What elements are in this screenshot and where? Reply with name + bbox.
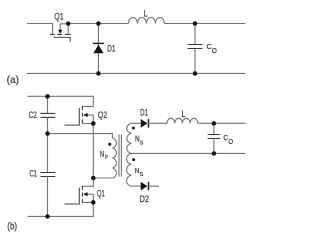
transistor Q2 source and body link [82,115,93,124]
svg-text:(a): (a) [7,75,20,86]
svg-text:D1: D1 [107,43,115,54]
transformer secondary bottom phase dot [132,158,135,161]
wire: D2 cathode stub [149,185,160,187]
transistor Q2 channel dashes [81,106,83,123]
diode D2 triangle [141,182,148,191]
node: CO top junction (circuit a) [193,21,198,26]
node: output junction L-CO (circuit b) [212,121,217,126]
transistor Q1 (circuit a) body link and right stub [60,24,68,34]
transistor Q1 (circuit b) body arrowhead triangle [83,192,87,196]
wire: circuit (a) top rail from Q1 to inductor [68,23,128,25]
wire: circuit (a) top rail left segment into Q1 drain stub [27,24,53,34]
wire: secondary top lead to D1 [131,122,140,124]
svg-text:L: L [144,8,148,19]
node: C1-C2 midpoint [45,131,50,136]
wire: circuit (a) bottom rail [27,72,246,74]
transformer primary winding NP [112,138,116,178]
wire: secondary bottom lead to D2 [131,185,140,187]
wire: capacitor C1 branch bottom [47,177,49,217]
capacitor C2 plates [40,113,55,117]
wire: Q2 source down to Q1 drain [92,124,94,179]
wire: diode D1 (circuit a) branch vertical [97,24,99,74]
wire: D1 cathode to inductor [149,122,168,124]
wire: C1-C2 midpoint to transformer primary top [48,134,113,138]
transistor Q1 (circuit a) channel dashes [50,33,71,35]
node: CO bottom junction (circuit b) [212,151,217,156]
transistor Q1 (circuit b) source and body link [82,194,93,202]
transistor Q1 (circuit a) body arrow shaft [59,24,61,30]
transistor Q2 body arrowhead triangle [83,113,87,117]
svg-text:O: O [212,46,217,55]
transistor Q1 (circuit b) channel dashes [81,186,83,203]
svg-text:C2: C2 [29,110,37,121]
transformer secondary winding NS bottom [127,153,132,186]
transistor Q2 body arrow shaft [87,114,93,116]
node: D1 top junction (circuit a) [96,21,101,26]
svg-text:C1: C1 [30,169,37,180]
inductor L (circuit a) [128,18,164,24]
node: C1 bottom junction [45,214,50,219]
svg-text:Q2: Q2 [98,110,107,121]
diode D1 (circuit b) triangle [141,119,148,128]
diode D1 (circuit a) triangle [93,45,103,54]
node: C2 top junction [45,94,50,99]
svg-text:D2: D2 [140,194,150,205]
node: Q1-Q2 midpoint (Q1 drain) [91,176,96,181]
wire: circuit (a) top rail from inductor to right edge [164,23,245,25]
node: D1 bottom junction (circuit a) [96,71,101,76]
svg-text:Q1: Q1 [97,188,105,199]
transistor Q1 (circuit b) drain corner [82,178,93,186]
diode D1 (circuit b) cathode bar [148,119,150,128]
transformer primary phase dot [108,143,111,146]
transformer core lines [119,135,121,177]
svg-text:O: O [228,137,233,146]
wire: capacitor C2 to C1 node [47,117,49,133]
node: CO bottom junction (circuit a) [193,71,198,76]
capacitor CO (circuit a) plates [188,45,203,49]
inductor L (circuit b) [167,118,198,123]
svg-text:S: S [140,141,144,147]
svg-text:P: P [105,155,108,161]
transistor Q1 (circuit b) body arrow shaft [87,193,93,195]
wire: capacitor CO (circuit a) branch top [194,24,196,45]
transformer secondary top phase dot [132,127,135,130]
transformer secondary winding NS top [127,123,132,153]
svg-text:S: S [140,172,144,178]
svg-text:C: C [223,133,228,142]
node: Q1 drain junction (circuit a) [66,21,71,26]
wire: capacitor CO (circuit b) branch bottom [213,139,215,154]
svg-text:Q1: Q1 [54,12,64,23]
capacitor C1 plates [40,173,55,177]
transistor Q2 gate bar and lead [65,108,80,125]
wire: circuit (b) top rail and Q2 drain corner [28,96,94,106]
node: Q2 source junction [91,121,96,126]
diode D2 cathode bar [148,182,150,191]
svg-text:(b): (b) [7,221,17,232]
capacitor CO (circuit b) plates [208,135,221,139]
wire: capacitor CO (circuit a) branch bottom [194,49,196,74]
svg-text:D1: D1 [140,107,148,118]
wire: circuit (b) bottom rail with corner up to Q1 source [28,202,94,216]
svg-text:L: L [182,108,186,119]
svg-text:N: N [100,149,105,159]
wire: circuit (b) output top rail [198,122,246,124]
wire: capacitor CO (circuit b) branch top [213,123,215,134]
wire: secondary center tap rail [131,152,245,154]
wire: capacitor C1 branch top [47,134,49,173]
transistor Q1 (circuit b) gate bar and lead [65,188,80,204]
wire: capacitor C2 branch top [47,96,49,113]
node: Q1 source junction (circuit b) [91,200,96,205]
transistor Q1 (circuit a) body arrowhead [58,30,62,34]
diode D1 (circuit a) cathode bar [93,42,104,44]
transistor Q1 (circuit a) gate bar and gate lead [54,37,71,41]
wire: Q1 drain node to transformer primary bottom [93,177,112,179]
